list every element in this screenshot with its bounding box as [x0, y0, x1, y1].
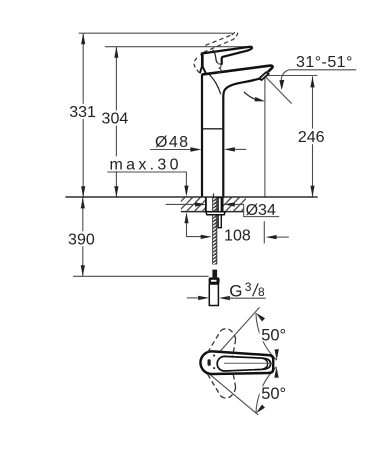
G3/8 arrowhead left-pointing: [219, 296, 230, 300]
deck hatching left: [181, 197, 206, 211]
hose collar slot: [211, 280, 217, 282]
svg-text:246: 246: [298, 129, 325, 146]
deck hatching right: [223, 197, 246, 211]
top view: 50deg arc upper: [256, 313, 277, 360]
lever neck S-curve: [213, 50, 218, 64]
radial arrowhead lower: [256, 405, 265, 414]
108 arrowhead right piece: [266, 235, 277, 239]
lever chin: [200, 67, 206, 74]
dashed rotated lever upper left edge: [208, 331, 221, 353]
hose collar: [209, 277, 220, 284]
top view lever outer outline: [200, 351, 273, 374]
lever (side view) top edge: [201, 47, 252, 65]
svg-text:390: 390: [68, 231, 95, 248]
Ø48 arrowhead right: [190, 147, 201, 151]
dimension line 304: [115, 47, 117, 197]
extension line top (331 level): [79, 32, 233, 34]
svg-text:304: 304: [102, 111, 129, 128]
arc arrowhead down (upper, at lever top edge): [275, 349, 279, 360]
G3/8 right tail and underline: [227, 297, 265, 299]
threaded stud: [213, 197, 217, 264]
top view small dot: [213, 354, 215, 356]
108 arrowhead left piece: [201, 235, 212, 239]
extension line (246 top, spout outlet level): [268, 75, 318, 77]
top view centerline: [224, 362, 273, 364]
raised lever dashed top edge: [205, 35, 232, 46]
deck bottom line: [181, 211, 246, 213]
label Ø34: [244, 201, 278, 216]
dashed rotated lever upper cap: [221, 329, 236, 340]
Ø34 arrowhead pointing right: [195, 202, 206, 206]
arrow 246 bottom: [310, 186, 314, 197]
svg-text:G: G: [229, 281, 242, 300]
arrow 331 bottom: [81, 186, 85, 197]
max.30 arrow down: [184, 186, 188, 197]
Ø48 arrowhead left-pointing: [224, 147, 235, 151]
108 right tail: [276, 236, 288, 238]
arrow 390 top: [81, 197, 85, 208]
label 50 lower: [260, 386, 287, 400]
dimension line 246: [312, 76, 314, 196]
extension line (304 level): [105, 46, 250, 48]
spout top edge: [202, 66, 273, 75]
label 304: [102, 111, 129, 126]
shank left edge: [205, 197, 207, 211]
arrow 304 bottom: [114, 186, 118, 197]
radial arrowhead upper: [256, 313, 265, 322]
cartridge squiggle: [218, 64, 222, 73]
deck top line: [65, 196, 317, 198]
top view small dot lower: [213, 367, 215, 369]
arrow 331 top: [81, 33, 85, 44]
dashed rotated lever lower cap: [221, 388, 236, 399]
dashed rotated lever lower right edge: [232, 371, 235, 388]
max.30 arrow up below deck: [184, 212, 188, 223]
connection tube G3/8: [209, 284, 218, 306]
neck curve: [209, 74, 221, 94]
svg-text:50°: 50°: [261, 327, 286, 345]
dashed rotated lever upper right edge: [232, 339, 235, 356]
swivel arrowhead: [255, 97, 266, 101]
Ø48 right counterpart tail: [235, 148, 246, 150]
svg-text:8: 8: [258, 285, 265, 299]
arrow 246 top: [310, 76, 314, 87]
outlet axis tick below deck: [263, 221, 265, 243]
max.30 leader underline: [107, 172, 186, 186]
label 50 upper: [260, 328, 287, 342]
dimension line 331: [82, 33, 84, 197]
swivel arrow arc: [244, 92, 259, 101]
svg-text:Ø34: Ø34: [246, 202, 276, 219]
spout outlet axis vertical line: [264, 77, 266, 197]
Ø34 arrowhead pointing left: [224, 202, 235, 206]
stud lower dark segment: [212, 270, 217, 278]
svg-text:331: 331: [69, 104, 96, 121]
svg-text:Ø48: Ø48: [155, 134, 189, 151]
raised lever dashed bottom edge: [203, 39, 233, 52]
label 108: [224, 228, 251, 242]
arrow 390 bottom: [81, 265, 85, 276]
top view lever slot: [208, 359, 211, 366]
raised lever dashed back arc: [194, 58, 200, 73]
svg-text:max.30: max.30: [110, 156, 182, 173]
G3/8 left arrow tail: [187, 297, 199, 299]
svg-text:50°: 50°: [261, 385, 286, 403]
spout angle diagonal line: [265, 76, 292, 103]
Ø48 leader line: [150, 149, 191, 151]
Ø34 left tail: [166, 203, 196, 205]
shank right edge: [222, 197, 224, 211]
label 390: [68, 231, 95, 246]
extension line bottom (390 level): [73, 275, 209, 277]
aerator outlet: [259, 72, 268, 80]
faucet body column left edge: [201, 74, 203, 197]
underline 31-51: [289, 69, 356, 71]
top view: radial line lower: [210, 374, 258, 415]
spout underside and column right edge: [223, 79, 260, 197]
G3/8 arrowhead right-pointing: [198, 296, 209, 300]
label 246: [297, 129, 327, 145]
label max.30: [108, 156, 179, 171]
dashed rotated lever lower left edge: [208, 374, 221, 396]
top view lever inner rim: [263, 358, 268, 369]
stud break gap: [211, 264, 218, 269]
threaded stud tick above deck: [213, 193, 215, 197]
lever angle leader 31-51 arc: [281, 70, 289, 81]
lever angle leader arrowhead: [279, 80, 284, 90]
second stud: [218, 198, 221, 228]
Ø34 leader and underline: [235, 204, 280, 216]
top view lever inner outline: [217, 356, 270, 371]
svg-text:31°-51°: 31°-51°: [296, 54, 353, 71]
top view: 50deg arc lower: [256, 367, 277, 414]
top view: radial line upper: [215, 307, 260, 357]
max.30 lower stem: [187, 223, 202, 237]
label 331: [70, 104, 97, 119]
arrow 304 top: [114, 47, 118, 58]
svg-text:3: 3: [245, 280, 252, 294]
svg-text:108: 108: [224, 227, 251, 244]
lever left face: [200, 54, 204, 67]
body joint line: [202, 128, 223, 130]
raised lever dashed tip: [232, 32, 238, 39]
washer under deck: [206, 212, 225, 215]
dimension line 390: [82, 197, 84, 276]
arc arrowhead up (lower, at lever bottom edge): [274, 367, 278, 378]
